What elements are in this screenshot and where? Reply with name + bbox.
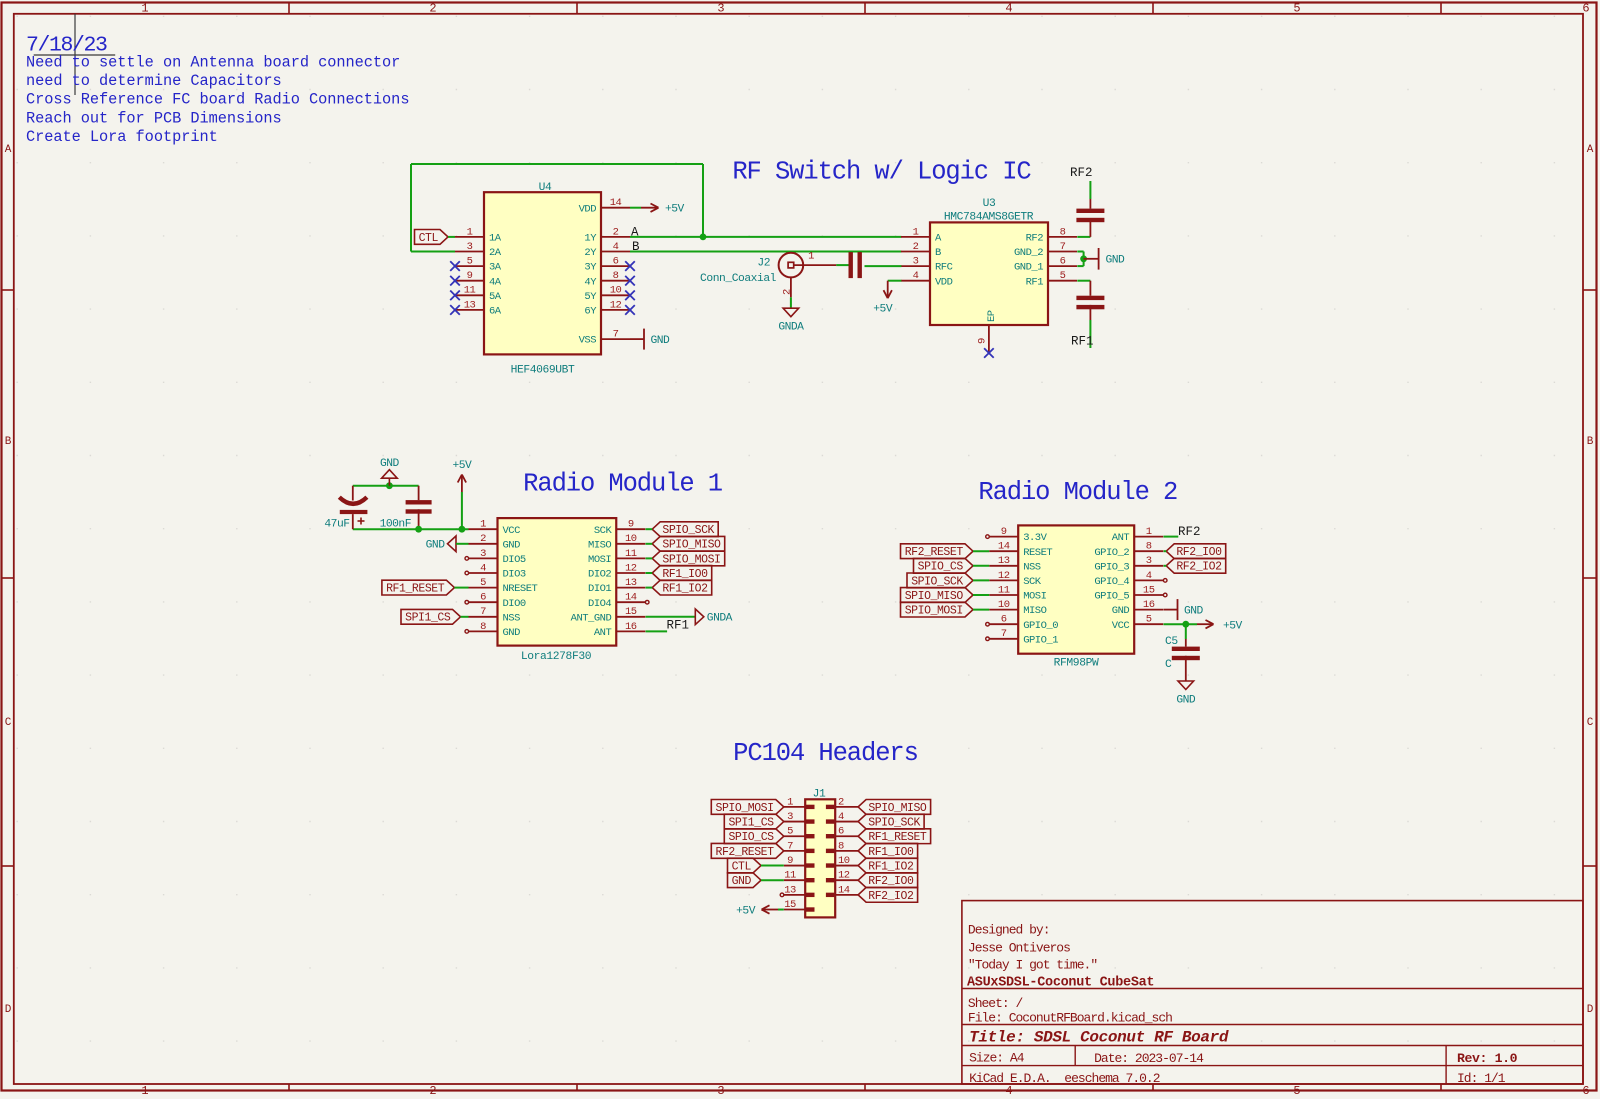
svg-text:SCK: SCK (594, 525, 613, 537)
svg-text:4: 4 (1005, 1084, 1012, 1098)
svg-text:SPIO_MOSI: SPIO_MOSI (662, 553, 720, 566)
svg-text:A: A (631, 225, 639, 239)
svg-text:GPIO_2: GPIO_2 (1094, 547, 1129, 559)
svg-text:Reach out for PCB Dimensions: Reach out for PCB Dimensions (26, 109, 282, 127)
svg-text:GPIO_1: GPIO_1 (1023, 634, 1058, 646)
svg-text:3.3V: 3.3V (1023, 532, 1047, 544)
svg-text:3: 3 (467, 241, 473, 253)
svg-text:C5: C5 (1165, 636, 1178, 648)
svg-text:10: 10 (998, 599, 1010, 611)
svg-text:10: 10 (610, 285, 622, 297)
svg-text:GND_2: GND_2 (1014, 247, 1043, 259)
svg-text:1Y: 1Y (584, 233, 597, 245)
svg-text:47uF: 47uF (324, 519, 349, 531)
svg-text:RF2_IO0: RF2_IO0 (1176, 546, 1222, 559)
svg-text:VSS: VSS (579, 335, 597, 347)
svg-text:SPIO_MOSI: SPIO_MOSI (905, 605, 963, 618)
svg-text:7: 7 (787, 840, 793, 852)
svg-text:6: 6 (480, 592, 486, 604)
svg-text:Conn_Coaxial: Conn_Coaxial (700, 273, 777, 285)
svg-text:10: 10 (625, 533, 637, 545)
svg-text:RF2_RESET: RF2_RESET (905, 546, 964, 559)
svg-text:2: 2 (480, 533, 486, 545)
svg-text:6: 6 (838, 826, 844, 838)
svg-text:Designed by:: Designed by: (968, 922, 1050, 937)
svg-text:14: 14 (610, 197, 622, 209)
svg-text:SPIO_CS: SPIO_CS (728, 831, 774, 844)
svg-text:8: 8 (480, 621, 486, 633)
svg-text:GND: GND (651, 335, 671, 347)
svg-text:1: 1 (1146, 526, 1152, 538)
svg-text:SCK: SCK (1023, 576, 1042, 588)
svg-text:EP: EP (986, 310, 998, 322)
svg-text:14: 14 (838, 884, 850, 896)
svg-text:ANT_GND: ANT_GND (571, 612, 612, 624)
svg-text:+5V: +5V (736, 905, 756, 917)
svg-text:2: 2 (913, 241, 919, 253)
svg-text:9: 9 (467, 270, 473, 282)
svg-text:GND: GND (1184, 605, 1204, 617)
svg-text:RF2: RF2 (1070, 166, 1093, 180)
svg-text:5A: 5A (489, 291, 502, 303)
svg-text:9: 9 (977, 338, 989, 344)
svg-text:3: 3 (717, 1084, 724, 1098)
svg-text:3A: 3A (489, 262, 502, 274)
svg-text:14: 14 (998, 541, 1010, 553)
svg-text:MOSI: MOSI (588, 554, 611, 566)
svg-text:ANT: ANT (594, 627, 612, 639)
svg-text:Cross Reference FC board Radio: Cross Reference FC board Radio Connectio… (26, 91, 409, 109)
svg-text:10: 10 (838, 855, 850, 867)
svg-text:4A: 4A (489, 276, 502, 288)
svg-text:DIO1: DIO1 (588, 583, 611, 595)
svg-text:+5V: +5V (873, 304, 893, 316)
svg-text:Radio Module 2: Radio Module 2 (978, 478, 1177, 507)
svg-text:VDD: VDD (579, 203, 597, 215)
svg-text:3: 3 (913, 256, 919, 268)
svg-text:A: A (5, 144, 12, 156)
svg-text:9: 9 (787, 855, 793, 867)
svg-text:GPIO_5: GPIO_5 (1094, 591, 1129, 603)
svg-text:RF1_IO0: RF1_IO0 (868, 846, 914, 859)
svg-text:GPIO_0: GPIO_0 (1023, 620, 1058, 632)
svg-text:DIO2: DIO2 (588, 569, 611, 581)
svg-text:3: 3 (1146, 555, 1152, 567)
svg-text:2: 2 (838, 796, 844, 808)
svg-text:GND: GND (1106, 255, 1126, 267)
svg-text:1: 1 (141, 1084, 148, 1098)
svg-text:7: 7 (480, 606, 486, 618)
svg-text:3: 3 (480, 548, 486, 560)
svg-text:RF2_IO2: RF2_IO2 (868, 890, 914, 903)
svg-text:12: 12 (625, 562, 637, 574)
svg-text:C: C (5, 717, 12, 729)
svg-text:GND: GND (1176, 695, 1196, 707)
svg-text:2: 2 (429, 2, 436, 16)
svg-text:A: A (1587, 144, 1594, 156)
svg-text:NSS: NSS (503, 612, 521, 624)
svg-text:PC104 Headers: PC104 Headers (733, 739, 918, 768)
svg-text:13: 13 (784, 884, 796, 896)
svg-text:RFC: RFC (935, 262, 953, 274)
svg-text:1: 1 (467, 226, 473, 238)
svg-text:11: 11 (625, 548, 637, 560)
svg-text:Title: SDSL Coconut RF Board: Title: SDSL Coconut RF Board (969, 1029, 1229, 1047)
svg-text:Create Lora footprint: Create Lora footprint (26, 128, 218, 146)
svg-text:need to determine Capacitors: need to determine Capacitors (26, 72, 282, 90)
svg-text:11: 11 (464, 285, 476, 297)
svg-text:RF2: RF2 (1178, 525, 1201, 539)
svg-text:"Today I got time.": "Today I got time." (968, 957, 1097, 972)
svg-text:16: 16 (625, 621, 637, 633)
svg-text:15: 15 (784, 899, 796, 911)
svg-text:5: 5 (1293, 1084, 1300, 1098)
svg-text:NRESET: NRESET (503, 583, 538, 595)
svg-text:File: CoconutRFBoard.kicad_sch: File: CoconutRFBoard.kicad_sch (968, 1010, 1172, 1025)
svg-text:2Y: 2Y (584, 247, 597, 259)
svg-text:4: 4 (480, 562, 486, 574)
svg-text:Lora1278F30: Lora1278F30 (521, 651, 592, 663)
svg-text:6: 6 (1582, 2, 1589, 16)
svg-text:GND: GND (426, 540, 446, 552)
svg-text:RESET: RESET (1023, 547, 1052, 559)
svg-text:15: 15 (625, 606, 637, 618)
svg-text:7: 7 (1001, 628, 1007, 640)
svg-text:GNDA: GNDA (707, 613, 733, 625)
svg-text:CTL: CTL (732, 860, 752, 873)
svg-text:RF1: RF1 (1071, 335, 1094, 349)
svg-text:GND: GND (503, 539, 521, 551)
svg-text:RF Switch w/ Logic IC: RF Switch w/ Logic IC (732, 158, 1031, 187)
svg-text:RFM98PW: RFM98PW (1054, 658, 1099, 670)
svg-text:11: 11 (998, 584, 1010, 596)
svg-text:SPIO_MISO: SPIO_MISO (868, 802, 927, 815)
svg-text:C: C (1587, 717, 1594, 729)
svg-text:RF2_IO2: RF2_IO2 (1176, 561, 1222, 574)
svg-text:7: 7 (613, 329, 619, 341)
svg-text:6: 6 (1060, 256, 1066, 268)
svg-text:SPI1_CS: SPI1_CS (405, 612, 451, 625)
svg-text:12: 12 (610, 299, 622, 311)
svg-text:14: 14 (625, 592, 637, 604)
svg-text:8: 8 (1146, 541, 1152, 553)
svg-text:1: 1 (808, 251, 814, 263)
svg-text:J1: J1 (813, 789, 826, 801)
svg-text:RF1_IO2: RF1_IO2 (662, 583, 708, 596)
svg-text:1: 1 (141, 2, 148, 16)
svg-text:SPIO_MISO: SPIO_MISO (905, 590, 964, 603)
svg-text:6Y: 6Y (584, 306, 597, 318)
svg-text:VCC: VCC (503, 525, 521, 537)
svg-text:VDD: VDD (935, 276, 953, 288)
svg-text:13: 13 (464, 299, 476, 311)
svg-text:U3: U3 (983, 198, 996, 210)
svg-text:100nF: 100nF (380, 519, 411, 531)
svg-text:MISO: MISO (588, 539, 611, 551)
svg-text:Need to settle on Antenna boar: Need to settle on Antenna board connecto… (26, 54, 400, 72)
svg-text:13: 13 (625, 577, 637, 589)
svg-text:RF1_RESET: RF1_RESET (386, 583, 445, 596)
svg-text:CTL: CTL (419, 232, 439, 245)
svg-text:2A: 2A (489, 247, 502, 259)
svg-text:C: C (1165, 659, 1172, 671)
svg-text:Sheet: /: Sheet: / (968, 996, 1024, 1011)
svg-text:U4: U4 (539, 182, 552, 194)
svg-text:4: 4 (1146, 570, 1152, 582)
svg-text:HEF4069UBT: HEF4069UBT (511, 365, 575, 377)
svg-text:NSS: NSS (1023, 561, 1041, 573)
svg-text:13: 13 (998, 555, 1010, 567)
svg-text:3: 3 (787, 811, 793, 823)
svg-text:GND: GND (1112, 605, 1130, 617)
svg-text:+5V: +5V (665, 204, 685, 216)
svg-text:8: 8 (1060, 226, 1066, 238)
svg-text:15: 15 (1143, 584, 1155, 596)
svg-text:DIO5: DIO5 (503, 554, 526, 566)
svg-text:SPIO_MISO: SPIO_MISO (662, 539, 721, 552)
svg-text:GND: GND (503, 627, 521, 639)
svg-text:2: 2 (429, 1084, 436, 1098)
svg-text:16: 16 (1143, 599, 1155, 611)
svg-text:DIO3: DIO3 (503, 569, 526, 581)
svg-text:8: 8 (613, 270, 619, 282)
svg-text:12: 12 (998, 570, 1010, 582)
svg-text:Radio Module 1: Radio Module 1 (523, 470, 723, 499)
svg-text:GND_1: GND_1 (1014, 262, 1043, 274)
svg-text:9: 9 (1001, 526, 1007, 538)
svg-text:GPIO_3: GPIO_3 (1094, 561, 1129, 573)
svg-text:4Y: 4Y (584, 276, 597, 288)
svg-text:RF1: RF1 (1026, 276, 1044, 288)
svg-text:+5V: +5V (452, 460, 472, 472)
svg-text:1: 1 (480, 519, 486, 531)
svg-text:D: D (5, 1004, 12, 1016)
svg-text:SPIO_SCK: SPIO_SCK (868, 816, 920, 829)
svg-text:5: 5 (1293, 2, 1300, 16)
svg-text:4: 4 (613, 241, 619, 253)
svg-text:J2: J2 (757, 257, 770, 269)
svg-text:2: 2 (782, 289, 794, 295)
svg-text:6: 6 (1001, 614, 1007, 626)
svg-text:4: 4 (913, 270, 919, 282)
svg-text:1: 1 (787, 796, 793, 808)
svg-text:SPIO_CS: SPIO_CS (918, 561, 964, 574)
svg-text:SPI1_CS: SPI1_CS (728, 816, 774, 829)
svg-text:GPIO_4: GPIO_4 (1094, 576, 1129, 588)
svg-text:4: 4 (1005, 2, 1012, 16)
svg-text:D: D (1587, 1004, 1594, 1016)
svg-text:SPIO_MOSI: SPIO_MOSI (716, 802, 774, 815)
svg-text:B: B (5, 436, 12, 448)
svg-text:5: 5 (787, 826, 793, 838)
svg-text:5Y: 5Y (584, 291, 597, 303)
svg-text:MISO: MISO (1023, 605, 1046, 617)
svg-text:3: 3 (717, 2, 724, 16)
svg-text:5: 5 (480, 577, 486, 589)
svg-text:12: 12 (838, 870, 850, 882)
svg-text:1: 1 (913, 226, 919, 238)
svg-text:RF2_RESET: RF2_RESET (716, 846, 775, 859)
svg-text:Rev: 1.0: Rev: 1.0 (1457, 1051, 1518, 1066)
svg-text:RF2_IO0: RF2_IO0 (868, 875, 914, 888)
svg-text:8: 8 (838, 840, 844, 852)
svg-text:GND: GND (380, 458, 400, 470)
svg-text:3Y: 3Y (584, 262, 597, 274)
svg-text:SPIO_SCK: SPIO_SCK (911, 575, 963, 588)
svg-text:B: B (1587, 436, 1594, 448)
svg-text:+5V: +5V (1223, 620, 1243, 632)
svg-text:RF1_IO0: RF1_IO0 (662, 568, 708, 581)
svg-text:5: 5 (1146, 614, 1152, 626)
svg-text:4: 4 (838, 811, 844, 823)
svg-text:6: 6 (1582, 1084, 1589, 1098)
svg-text:RF1_RESET: RF1_RESET (868, 831, 927, 844)
svg-text:7: 7 (1060, 241, 1066, 253)
svg-text:11: 11 (784, 870, 796, 882)
svg-text:ASUxSDSL-Coconut CubeSat: ASUxSDSL-Coconut CubeSat (967, 976, 1154, 991)
svg-text:RF1_IO2: RF1_IO2 (868, 860, 914, 873)
svg-text:6A: 6A (489, 306, 502, 318)
svg-text:VCC: VCC (1112, 620, 1130, 632)
svg-text:SPIO_SCK: SPIO_SCK (662, 524, 714, 537)
svg-text:6: 6 (613, 256, 619, 268)
svg-text:RF1: RF1 (667, 618, 690, 632)
svg-text:B: B (632, 240, 640, 254)
svg-text:Date: 2023-07-14: Date: 2023-07-14 (1094, 1051, 1204, 1066)
svg-text:B: B (935, 247, 941, 259)
svg-text:HMC784AMS8GETR: HMC784AMS8GETR (944, 212, 1034, 224)
svg-text:RF2: RF2 (1026, 233, 1044, 245)
svg-text:MOSI: MOSI (1023, 591, 1046, 603)
svg-text:Jesse Ontiveros: Jesse Ontiveros (968, 941, 1070, 956)
svg-text:9: 9 (628, 519, 634, 531)
svg-text:ANT: ANT (1112, 532, 1130, 544)
svg-text:KiCad E.D.A. eeschema 7.0.2: KiCad E.D.A. eeschema 7.0.2 (969, 1071, 1160, 1086)
svg-text:GND: GND (732, 875, 752, 888)
svg-text:Size: A4: Size: A4 (969, 1051, 1025, 1066)
svg-text:DIO0: DIO0 (503, 598, 526, 610)
svg-text:1A: 1A (489, 233, 502, 245)
svg-text:5: 5 (467, 256, 473, 268)
svg-text:DIO4: DIO4 (588, 598, 611, 610)
svg-text:GNDA: GNDA (778, 322, 804, 334)
svg-text:5: 5 (1060, 270, 1066, 282)
svg-text:2: 2 (613, 226, 619, 238)
svg-text:Id: 1/1: Id: 1/1 (1457, 1071, 1506, 1086)
